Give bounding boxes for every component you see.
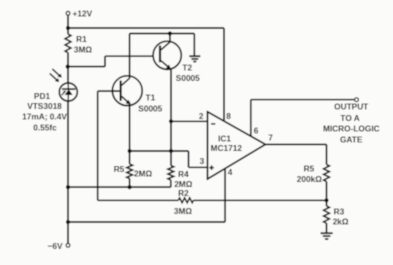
pin 4 label [228,167,233,177]
bottom rail to pin 4 [68,169,225,222]
svg-text:VTS3018: VTS3018 [27,101,62,111]
svg-text:+12V: +12V [73,9,93,19]
ground at T2 [189,56,200,61]
T2 labels [176,63,200,83]
T1 base wire [98,90,120,92]
svg-text:T1: T1 [146,92,156,102]
svg-text:8: 8 [226,111,231,121]
svg-text:IC1: IC1 [218,134,231,144]
resistor R1 [65,34,92,55]
ground at R3 [321,233,333,239]
emitter rail [130,150,189,152]
node T2 collector [168,31,172,35]
pin 6 wire to output [251,100,355,137]
svg-text:OUTPUT: OUTPUT [334,102,368,112]
pin 7 label [268,133,273,143]
svg-text:PD1: PD1 [34,91,51,101]
T1 collector riser [129,34,131,79]
svg-text:7: 7 [268,133,273,143]
light arrows into PD1 [50,69,62,82]
node R5 bottom [128,185,132,189]
svg-text:R1: R1 [76,34,87,44]
node left wire/187 [66,185,70,189]
T1 labels [138,92,162,113]
collector rail [130,34,195,57]
svg-text:T2: T2 [182,63,192,73]
T2 emitter riser [170,69,172,151]
resistor R5 200k [297,144,330,200]
svg-text:3MΩ: 3MΩ [74,45,93,55]
wire node to T2 base [68,56,160,66]
pin 8 label [226,111,231,121]
svg-text:2kΩ: 2kΩ [333,216,349,226]
node R1/PD1/T2-base [66,65,70,69]
node at top rail tap [66,26,70,30]
IC1 labels [211,134,243,154]
svg-text:GATE: GATE [340,135,363,145]
resistor R5 2M [114,151,153,187]
svg-text:2: 2 [199,111,204,121]
+12V supply terminal [66,9,92,19]
svg-text:17mA; 0.4V: 17mA; 0.4V [22,112,67,122]
wire -6V rail upper [68,186,171,188]
photodiode PD1 [59,83,77,101]
svg-text:3: 3 [200,156,205,166]
svg-text:3MΩ: 3MΩ [174,206,193,216]
svg-text:MC1712: MC1712 [211,143,243,153]
transistor T1 [112,76,142,106]
wire top rail to pin 8 [68,28,224,121]
svg-text:S0005: S0005 [138,103,162,113]
transistor T2 [153,41,181,69]
svg-text:R4: R4 [178,169,189,179]
wire PD1 to -6V [67,101,69,243]
pin 2 label [199,111,204,121]
svg-text:R3: R3 [334,206,345,216]
T1 base drop [97,91,99,200]
T2 collector riser [169,34,171,43]
node T1 emitter/R5 [128,149,132,153]
svg-text:S0005: S0005 [176,73,200,83]
op-amp IC1 MC1712 [208,112,266,179]
pin 6 label [254,126,259,136]
svg-text:0.55fc: 0.55fc [33,123,57,133]
svg-text:2MΩ: 2MΩ [134,168,153,178]
pin 3 label [200,156,205,166]
resistor R3 2k [324,200,349,233]
pin 7 wire [265,143,326,145]
-6V supply terminal [48,241,70,251]
svg-text:−6V: −6V [48,241,63,251]
svg-text:4: 4 [228,167,233,177]
node pin2 tap [169,119,173,123]
resistor R2 3M [98,188,327,216]
node left wire/bottom [66,220,70,224]
wire +12V to R1 [67,15,69,34]
svg-text:R5: R5 [114,164,125,174]
svg-text:R2: R2 [178,188,189,198]
node R5/R3/R2 [324,198,328,202]
wire R1 to PD1 [67,53,69,84]
resistor R4 2M [168,151,193,189]
svg-text:MICRO-LOGIC: MICRO-LOGIC [323,123,380,133]
wire to pin 3 [189,151,208,167]
wire to pin 2 [171,120,208,122]
svg-text:200kΩ: 200kΩ [297,174,322,184]
svg-text:6: 6 [254,126,259,136]
output text [323,102,380,145]
svg-text:TO A: TO A [340,113,359,123]
output terminal [355,98,359,102]
svg-text:R5: R5 [304,164,315,174]
node T2 emitter/R4 [169,149,173,153]
PD1 value labels [22,91,67,133]
T1 emitter riser [129,102,131,151]
